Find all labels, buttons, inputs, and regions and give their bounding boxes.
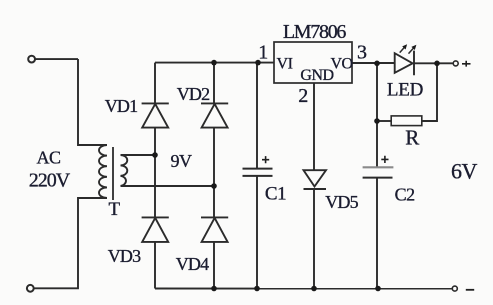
junction nodes bottom rail	[211, 286, 217, 292]
svg-text:9V: 9V	[171, 151, 193, 171]
svg-text:6V: 6V	[451, 159, 478, 184]
capacitor C1	[243, 169, 273, 176]
LED arrowheads	[402, 44, 407, 49]
wire left vertical upper	[78, 59, 107, 145]
resistor R	[391, 116, 422, 126]
capacitor C2	[363, 166, 394, 168]
regulator U1 LM7806 box	[274, 42, 352, 83]
svg-text:VD4: VD4	[176, 254, 209, 274]
diode VD1	[142, 103, 169, 127]
wire C2 column	[376, 63, 378, 288]
svg-text:C2: C2	[395, 185, 415, 205]
junction node top rail at C1	[255, 60, 261, 66]
terminal bottom-right	[452, 286, 457, 291]
LED D1	[395, 51, 414, 76]
diode VD4	[201, 217, 228, 242]
label plus C1	[262, 156, 269, 163]
junction node LED cathode / R	[434, 61, 440, 67]
wire left vertical lower	[34, 198, 107, 288]
wire R branch right	[422, 63, 437, 121]
junction node pin3	[374, 61, 380, 67]
diode VD5	[304, 170, 327, 189]
svg-text:220V: 220V	[29, 170, 71, 192]
terminal top-left	[28, 56, 35, 63]
wire capacitor C1 column	[256, 63, 258, 289]
svg-text:T: T	[108, 199, 120, 220]
svg-text:GND: GND	[300, 67, 333, 84]
wire pin 3 to LED	[352, 62, 395, 64]
wire right bridge column	[213, 63, 215, 289]
LED arrows	[400, 47, 414, 54]
transformer core	[112, 147, 114, 200]
junction node R left	[374, 118, 380, 124]
diode VD2	[201, 103, 228, 127]
svg-text:C1: C1	[265, 184, 286, 205]
transformer T primary winding	[99, 145, 107, 198]
junction node top rail at VD2	[211, 60, 217, 66]
diode VD3	[142, 217, 169, 242]
label plus C2	[381, 156, 388, 163]
svg-text:VO: VO	[330, 56, 352, 73]
wire secondary top to bridge	[121, 154, 156, 156]
svg-text:3: 3	[357, 42, 367, 64]
svg-text:LM7806: LM7806	[283, 21, 347, 43]
wire LED to terminal	[414, 62, 453, 64]
svg-text:VD3: VD3	[108, 246, 141, 266]
wire R branch left	[377, 120, 391, 122]
wire top rail	[155, 62, 274, 64]
svg-text:LED: LED	[387, 80, 423, 101]
junction node secondary top	[152, 152, 158, 158]
svg-text:VD1: VD1	[105, 96, 138, 116]
wire secondary bottom to bridge	[121, 185, 215, 187]
wire pin 2 column	[313, 83, 315, 289]
svg-text:1: 1	[258, 42, 268, 64]
svg-text:AC: AC	[36, 148, 60, 168]
svg-text:VD5: VD5	[325, 192, 358, 212]
junction node secondary bottom	[211, 183, 217, 189]
label plus output	[462, 61, 471, 67]
transformer secondary winding	[121, 155, 128, 186]
label minus output	[466, 289, 474, 291]
svg-text:VI: VI	[277, 56, 293, 73]
terminal top-right	[453, 61, 458, 66]
wire bottom rail	[155, 288, 452, 290]
svg-text:VD2: VD2	[177, 84, 210, 104]
wire left bridge column	[154, 63, 156, 289]
terminal bottom-left	[27, 285, 34, 292]
svg-text:R: R	[405, 126, 419, 150]
svg-text:2: 2	[298, 85, 308, 107]
wire top-left horizontal	[35, 58, 78, 60]
